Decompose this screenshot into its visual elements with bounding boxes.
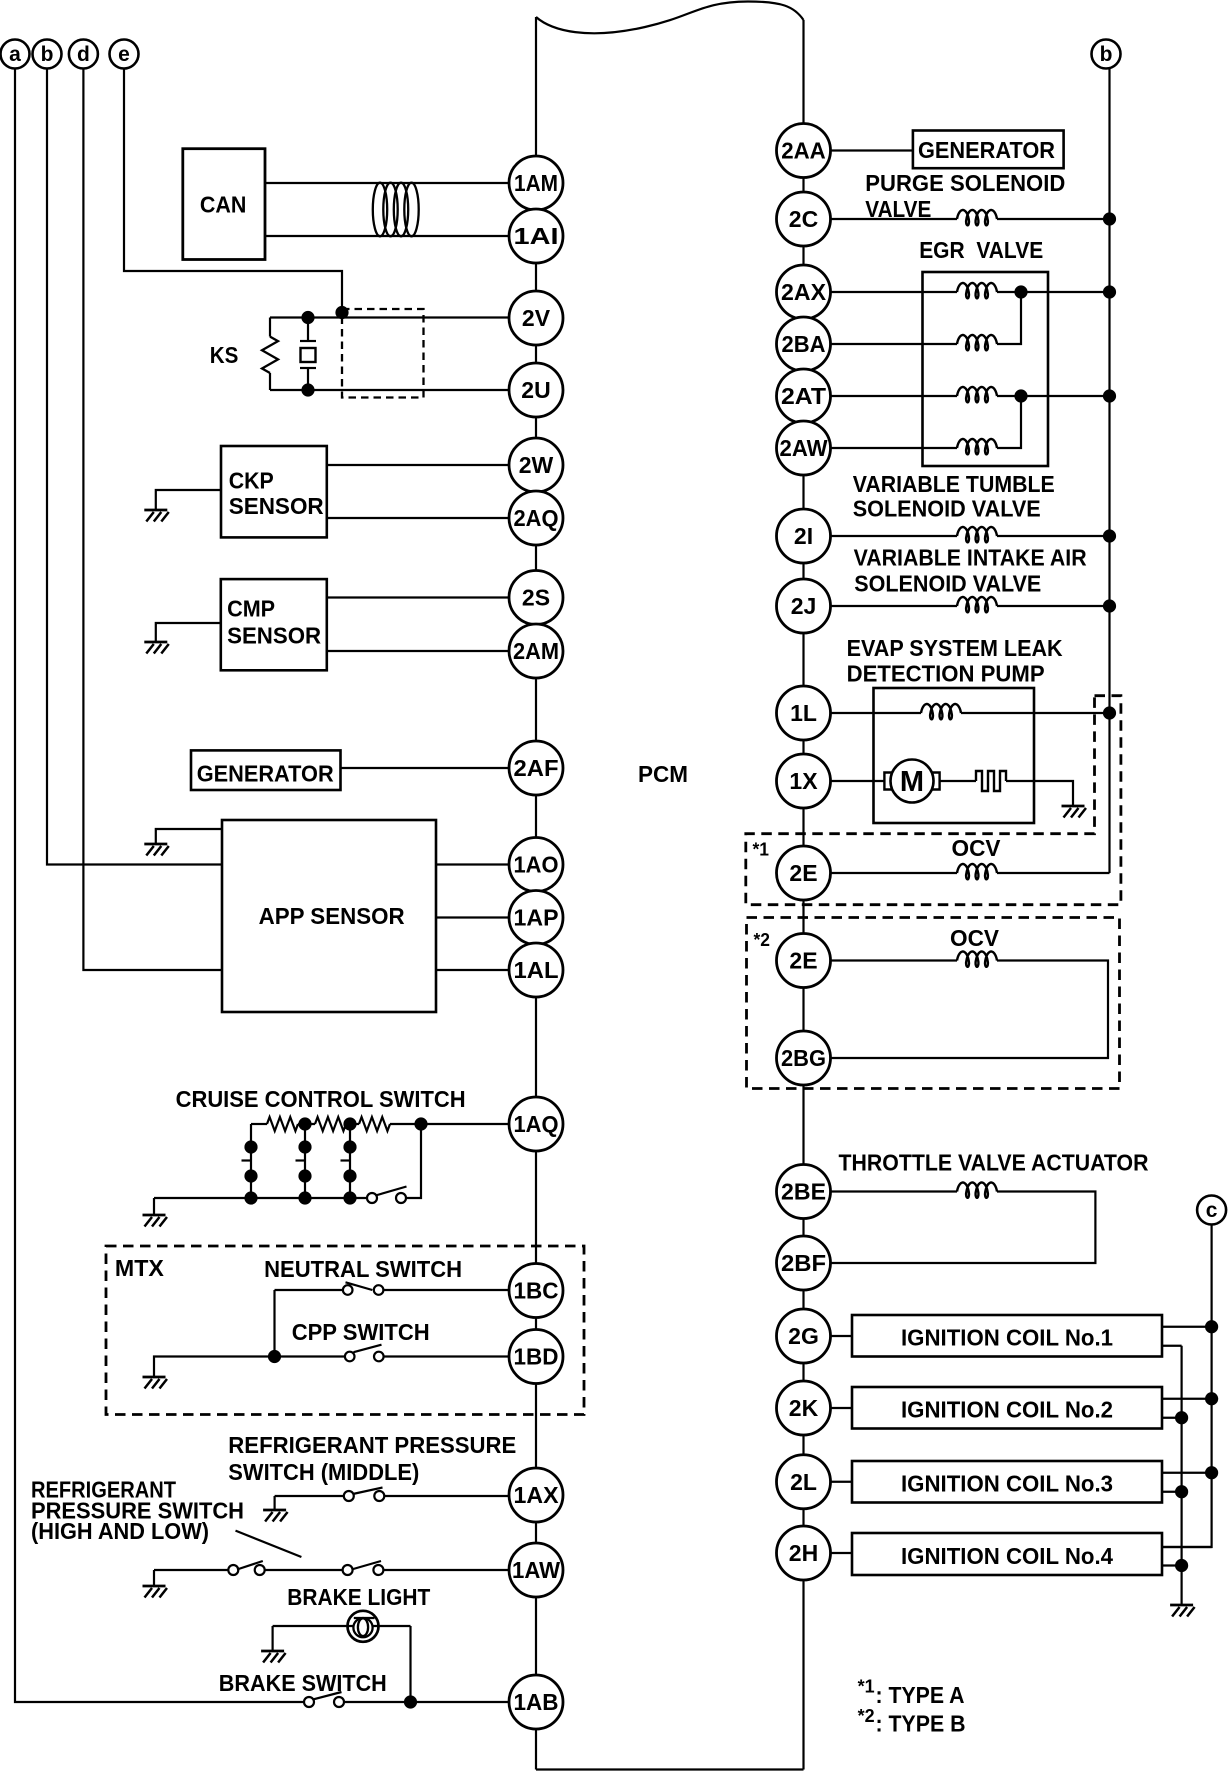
svg-text:PCM: PCM [638,761,688,787]
inductor OCV type A [957,864,997,879]
wire ignition coil 1 supply [1162,1326,1212,1328]
inductor throttle actuator [957,1183,997,1198]
node purge bus b [1103,212,1116,225]
connector pin 2E type B [777,934,831,988]
svg-text:1L: 1L [790,700,817,726]
connector pin 2AM [509,624,563,678]
node ignition coil 2 ground [1175,1411,1188,1424]
inductor purge solenoid [957,210,997,225]
wire refrigerant middle ground stub [274,1496,276,1510]
twisted pair symbol [373,183,387,237]
generator box left [191,750,341,790]
lamp brake light [353,1618,372,1637]
wire OCV typeB loop to 2BG [831,961,1109,1059]
svg-text:c: c [1206,1199,1218,1222]
svg-text:1AX: 1AX [514,1482,560,1508]
connector pin 2W [509,438,563,492]
wire refrigerant highlow middle [265,1569,343,1571]
svg-text:SENSOR: SENSOR [229,493,324,519]
wire APP ground stub [156,829,222,844]
inductor EVAP solenoid [921,704,961,719]
svg-text:CRUISE CONTROL SWITCH: CRUISE CONTROL SWITCH [176,1086,466,1112]
CKP sensor box [221,446,327,537]
wire brake light left [273,1625,411,1627]
connector pin 1AW [509,1543,563,1597]
node tumble bus b [1103,529,1116,542]
connector pin 2BA [777,317,831,371]
svg-text:e: e [118,43,130,66]
node c right [1197,1196,1226,1225]
switch refrigerant low [343,1565,353,1575]
connector pin 1AX [509,1468,563,1522]
svg-text:PURGE SOLENOID: PURGE SOLENOID [865,170,1065,196]
ground CKP [144,510,169,522]
wire CKP ground stub [156,490,221,510]
inductor EGR coil 4 [957,439,997,454]
resistor cruise R1 [267,1117,298,1131]
svg-text:2AW: 2AW [780,435,828,461]
node b right [1092,40,1121,69]
wire EVAP coil to bus b [961,712,1110,714]
svg-text:2U: 2U [521,377,550,403]
wire CAN high to 1AM [265,182,510,184]
inductor variable tumble [957,527,997,542]
node ignition coil 3 ground [1175,1485,1188,1498]
connector pin 1AO [509,838,563,892]
type B dashed box [747,918,1120,1089]
wire 2AW to coil [831,447,958,449]
wire intake coil to bus b [997,605,1110,607]
wire 2AT to coil [831,395,958,397]
wire 2H to ignition coil 4 [831,1552,853,1554]
svg-text:*1: *1 [753,840,770,860]
wire 2I to coil [831,535,958,537]
wire rail d [83,69,222,971]
wire cruise top segment 1 [251,1123,267,1125]
wire brake switch to 1AB [344,1701,509,1703]
svg-text:CMP: CMP [227,596,275,622]
svg-text:OCV: OCV [952,835,1002,861]
connector pin 1BC [509,1264,563,1318]
switch brake [304,1697,314,1707]
switch CPP [345,1352,355,1362]
wire 2J to coil [831,605,958,607]
ground CMP [144,642,169,654]
wire CMP to 2AM [327,650,510,652]
connector pin 1AP [509,891,563,945]
wire 2AA to generator [831,149,913,151]
svg-text:b: b [1100,43,1113,66]
wire refrigerant middle left [275,1495,344,1497]
connector pin 2AW [777,421,831,475]
node d [69,40,98,69]
svg-text:2V: 2V [522,305,551,331]
svg-text:2BG: 2BG [781,1045,826,1071]
svg-text:2E: 2E [789,860,817,886]
svg-text:IGNITION COIL No.3: IGNITION COIL No.3 [901,1471,1113,1497]
wire ignition coil 4 supply [1162,1546,1212,1548]
wire CKP to 2W [327,464,510,466]
wire refrigerant highlow left [154,1569,228,1571]
svg-text:1BC: 1BC [514,1278,559,1304]
svg-text:2BE: 2BE [781,1179,826,1205]
wire ignition coil 2 supply [1162,1398,1212,1400]
ignition coil No.2 box [852,1387,1162,1429]
wire cruise ground stub [153,1198,155,1215]
svg-text:2BA: 2BA [782,331,826,357]
ground brake light [261,1651,286,1663]
svg-text:1BD: 1BD [514,1344,559,1370]
wire CAN low to 1AI [265,235,510,237]
svg-text:2AX: 2AX [781,279,827,305]
ground refrigerant highlow [143,1586,168,1598]
svg-text:2I: 2I [794,523,813,549]
svg-text:(HIGH AND LOW): (HIGH AND LOW) [31,1518,209,1544]
wire motor to pulse element [940,780,976,782]
svg-text:2AM: 2AM [513,638,559,664]
ignition coil No.4 box [852,1533,1162,1575]
connector pin 2AA [777,124,831,178]
wire ignition coil 3 supply [1162,1472,1212,1474]
wire PCM right trunk (pin column 2) [802,20,804,1770]
connector pin 2J [777,579,831,633]
wire CKP to 2AQ [327,517,510,519]
svg-text:2AF: 2AF [514,755,559,781]
svg-text:KS: KS [210,342,239,368]
pulse element EVAP [976,771,1006,791]
connector pin 2C [777,192,831,246]
svg-text:CPP SWITCH: CPP SWITCH [292,1319,430,1345]
node EGR bus b 2 [1103,389,1116,402]
connector pin 2U [509,363,563,417]
svg-text:APP SENSOR: APP SENSOR [259,903,405,929]
wire brake light ground stub [272,1626,274,1651]
svg-text:a: a [9,43,21,66]
CMP sensor box [221,579,327,670]
connector pin 2BG [777,1031,831,1085]
node cpp junction [268,1350,281,1363]
connector pin 1X [777,754,831,808]
svg-text:1X: 1X [789,768,818,794]
connector pin 1L [777,686,831,740]
node intake bus b [1103,599,1116,612]
wire ignition ground bus [1180,1346,1182,1605]
wire KS top to 2V [270,316,510,318]
wire 2K to ignition coil 2 [831,1407,853,1409]
wire bottom link 1AB to 2H column [536,1768,804,1770]
svg-text:IGNITION COIL No.1: IGNITION COIL No.1 [901,1325,1113,1351]
wire 1L to coil [831,712,922,714]
wire bus c right [1162,1225,1212,1548]
node e [110,40,139,69]
svg-text:2W: 2W [519,452,554,478]
wire refrigerant middle to 1AX [384,1495,509,1497]
connector pin 2S [509,571,563,625]
svg-text:SENSOR: SENSOR [227,623,321,649]
svg-text:DETECTION PUMP: DETECTION PUMP [847,661,1045,687]
svg-text:IGNITION COIL No.4: IGNITION COIL No.4 [901,1543,1113,1569]
svg-text:2K: 2K [789,1395,819,1421]
connector pin 2AF [509,741,563,795]
svg-text:b: b [41,43,54,66]
svg-text:2L: 2L [790,1469,817,1495]
svg-text:BRAKE LIGHT: BRAKE LIGHT [287,1584,430,1610]
inductor EGR coil 2 [957,335,997,350]
connector pin 1AQ [509,1097,563,1151]
svg-text:SOLENOID VALVE: SOLENOID VALVE [853,496,1041,522]
wire EGR coil2 up [997,292,1021,344]
connector pin 2G [777,1309,831,1363]
svg-text:2H: 2H [789,1540,818,1566]
wire cruise top segment 2 [298,1123,315,1125]
resistor KS [269,318,271,337]
svg-text:OCV: OCV [950,925,1000,951]
svg-text:BRAKE SWITCH: BRAKE SWITCH [219,1670,387,1696]
ignition coil No.1 box [852,1315,1162,1357]
svg-text:2AT: 2AT [781,383,826,409]
switch neutral [343,1285,353,1295]
svg-text:VARIABLE INTAKE AIR: VARIABLE INTAKE AIR [854,545,1087,571]
svg-text:CAN: CAN [200,192,247,218]
svg-text:1AI: 1AI [514,223,559,249]
node b [33,40,62,69]
wire 2AX to coil [831,291,958,293]
svg-text:CKP: CKP [229,468,274,494]
wire 2BA to coil [831,343,958,345]
connector pin 2I [777,509,831,563]
ground APP [144,844,169,856]
connector pin 2L [777,1455,831,1509]
wire KS bottom to 2U [270,389,510,391]
svg-text:VARIABLE TUMBLE: VARIABLE TUMBLE [853,471,1055,497]
wire rail a [15,69,304,1703]
wire APP to 1AO [436,863,510,865]
wire generator to 2AF [341,767,510,769]
wire ignition coil 1 ground [1162,1345,1182,1347]
connector pin 2AT [777,369,831,423]
wire 2L to ignition coil 3 [831,1481,853,1483]
svg-text:: TYPE B: : TYPE B [876,1711,966,1737]
connector pin 2BF [777,1236,831,1290]
callout line refrigerant high-low [236,1531,302,1557]
wire cpp switch left [275,1355,345,1357]
generator box right [913,131,1064,169]
node cruise junction 2 [343,1117,356,1130]
node e-KS junction [335,306,348,319]
wire rail e [124,69,342,318]
MTX dashed box [106,1246,584,1415]
wire APP to 1AL [436,969,510,971]
svg-text:1AQ: 1AQ [514,1111,559,1137]
inductor EGR coil 1 [957,283,997,298]
svg-text:2G: 2G [788,1323,819,1349]
connector pin 2K [777,1381,831,1435]
wire EGR coil4 up [997,396,1021,448]
connector pin 1AB [509,1675,563,1729]
wire ignition coil 4 ground [1162,1564,1182,1566]
wire ignition coil 2 ground [1162,1417,1182,1419]
ground refrigerant middle [263,1510,288,1522]
node a [1,40,30,69]
svg-text:: TYPE A: : TYPE A [876,1682,965,1708]
connector pin 1AL [509,943,563,997]
node ignition coil 2 supply [1205,1392,1218,1405]
svg-text:*2: *2 [754,930,771,950]
connector pin 1AM [509,156,563,210]
ground cruise [143,1215,168,1227]
wire PCM left trunk (pin column 1) [535,17,537,1770]
EVAP pump box [874,688,1035,823]
ground ignition coils [1170,1605,1195,1617]
wire EGR coil3 to bus b [997,395,1110,397]
wire cruise top segment 4 to 1AQ [390,1123,510,1125]
node brake light junction [404,1695,417,1708]
piezo element KS [301,311,314,324]
svg-text:MTX: MTX [115,1255,165,1281]
wire rail b [47,69,222,865]
svg-text:1AP: 1AP [514,905,559,931]
wire CMP to 2S [327,596,510,598]
svg-text:*1: *1 [858,1676,875,1697]
node cruise junction 3 [414,1117,427,1130]
switch refrigerant middle [344,1491,354,1501]
connector pin 1AI [509,209,563,263]
wire cruise switch to junction [406,1124,421,1198]
svg-text:1AW: 1AW [512,1557,560,1583]
node EGR bus b 1 [1103,285,1116,298]
wire 2E typeA to coil [831,872,958,874]
svg-text:SOLENOID VALVE: SOLENOID VALVE [854,571,1041,597]
EGR valve box [923,272,1049,466]
wire brake light to brake switch node [409,1626,411,1702]
wire cruise top segment 3 [346,1123,359,1125]
node EVAP bus b [1103,706,1116,719]
wire cpp ground stub [154,1357,275,1378]
wire 1X to motor [831,780,885,782]
wire 2BE to coil [831,1190,958,1192]
wire pulse to ground [1006,781,1073,806]
svg-text:2AA: 2AA [781,138,826,164]
svg-text:1AM: 1AM [514,170,558,196]
svg-text:THROTTLE VALVE ACTUATOR: THROTTLE VALVE ACTUATOR [839,1150,1149,1176]
svg-text:2C: 2C [789,206,818,232]
wire 2C to purge coil [831,218,958,220]
connector pin 2BE [777,1165,831,1219]
svg-text:*2: *2 [858,1705,875,1726]
svg-text:1AB: 1AB [514,1689,559,1715]
wire refrigerant highlow ground stub [153,1570,155,1586]
wire bus b right [1108,68,1110,874]
inductor EGR coil 3 [957,387,997,402]
svg-text:EVAP SYSTEM LEAK: EVAP SYSTEM LEAK [847,635,1063,661]
CAN module box [183,149,265,260]
wire APP to 1AP [436,916,510,918]
wire throttle loop to 2BF [831,1192,1096,1264]
KS connector dashed box [342,309,424,398]
connector pin 2AX [777,265,831,319]
svg-text:2S: 2S [522,585,550,611]
node EGR junction 1 [1014,285,1027,298]
svg-text:GENERATOR: GENERATOR [197,761,334,787]
resistor cruise R2 [315,1117,346,1131]
wire tumble coil to bus b [997,535,1110,537]
wire EGR coil1 to bus b [997,291,1110,293]
wire harness squiggle top [536,2,804,34]
APP sensor box [222,820,436,1012]
wire CMP ground stub [156,623,221,642]
pushbutton branches cruise [250,1124,252,1198]
connector pin 2H [777,1526,831,1580]
wire 2E typeB to coil [831,959,958,961]
wire 2G to ignition coil 1 [831,1335,853,1337]
node EGR junction 2 [1014,389,1027,402]
svg-text:M: M [900,766,924,798]
svg-text:2BF: 2BF [781,1250,826,1276]
wire neutral switch left [275,1289,344,1291]
type A dashed outline [746,696,1121,905]
wire refrigerant highlow to 1AW [383,1569,509,1571]
svg-text:d: d [77,43,90,66]
node ignition coil 3 supply [1205,1466,1218,1479]
wire neutral-cpp vertical [273,1290,275,1357]
svg-text:SWITCH (MIDDLE): SWITCH (MIDDLE) [228,1459,419,1485]
connector pin 2E type A [777,846,831,900]
svg-text:2J: 2J [791,593,817,619]
wire ignition coil 3 ground [1162,1491,1182,1493]
connector pin 2V [509,291,563,345]
ground EVAP pump [1062,806,1087,818]
svg-text:2AQ: 2AQ [514,505,559,531]
connector pin 1BD [509,1330,563,1384]
inductor variable intake [957,597,997,612]
svg-text:1AO: 1AO [514,852,559,878]
svg-text:IGNITION COIL No.2: IGNITION COIL No.2 [901,1397,1113,1423]
node ignition coil 4 ground [1175,1559,1188,1572]
switch refrigerant high [228,1565,238,1575]
ignition coil No.3 box [852,1461,1162,1503]
motor M EVAP [884,773,892,790]
ground MTX [143,1377,168,1389]
wire cpp switch to 1BD [384,1355,509,1357]
resistor cruise R3 [359,1117,390,1131]
wire purge coil to bus b [997,218,1110,220]
svg-text:NEUTRAL SWITCH: NEUTRAL SWITCH [264,1256,462,1282]
svg-text:REFRIGERANT PRESSURE: REFRIGERANT PRESSURE [228,1432,516,1458]
svg-text:GENERATOR: GENERATOR [918,137,1055,163]
wire OCV typeA to bus b [997,872,1110,874]
wire cruise bottom [154,1197,367,1199]
svg-text:2E: 2E [789,948,817,974]
node cruise junction 1 [298,1117,311,1130]
inductor OCV type B [957,952,997,967]
wire neutral switch to 1BC [383,1289,509,1291]
node ignition coil 1 supply [1205,1320,1218,1333]
svg-text:EGR VALVE: EGR VALVE [919,237,1043,263]
svg-text:1AL: 1AL [514,957,559,983]
switch cruise main [367,1193,377,1203]
connector pin 2AQ [509,491,563,545]
